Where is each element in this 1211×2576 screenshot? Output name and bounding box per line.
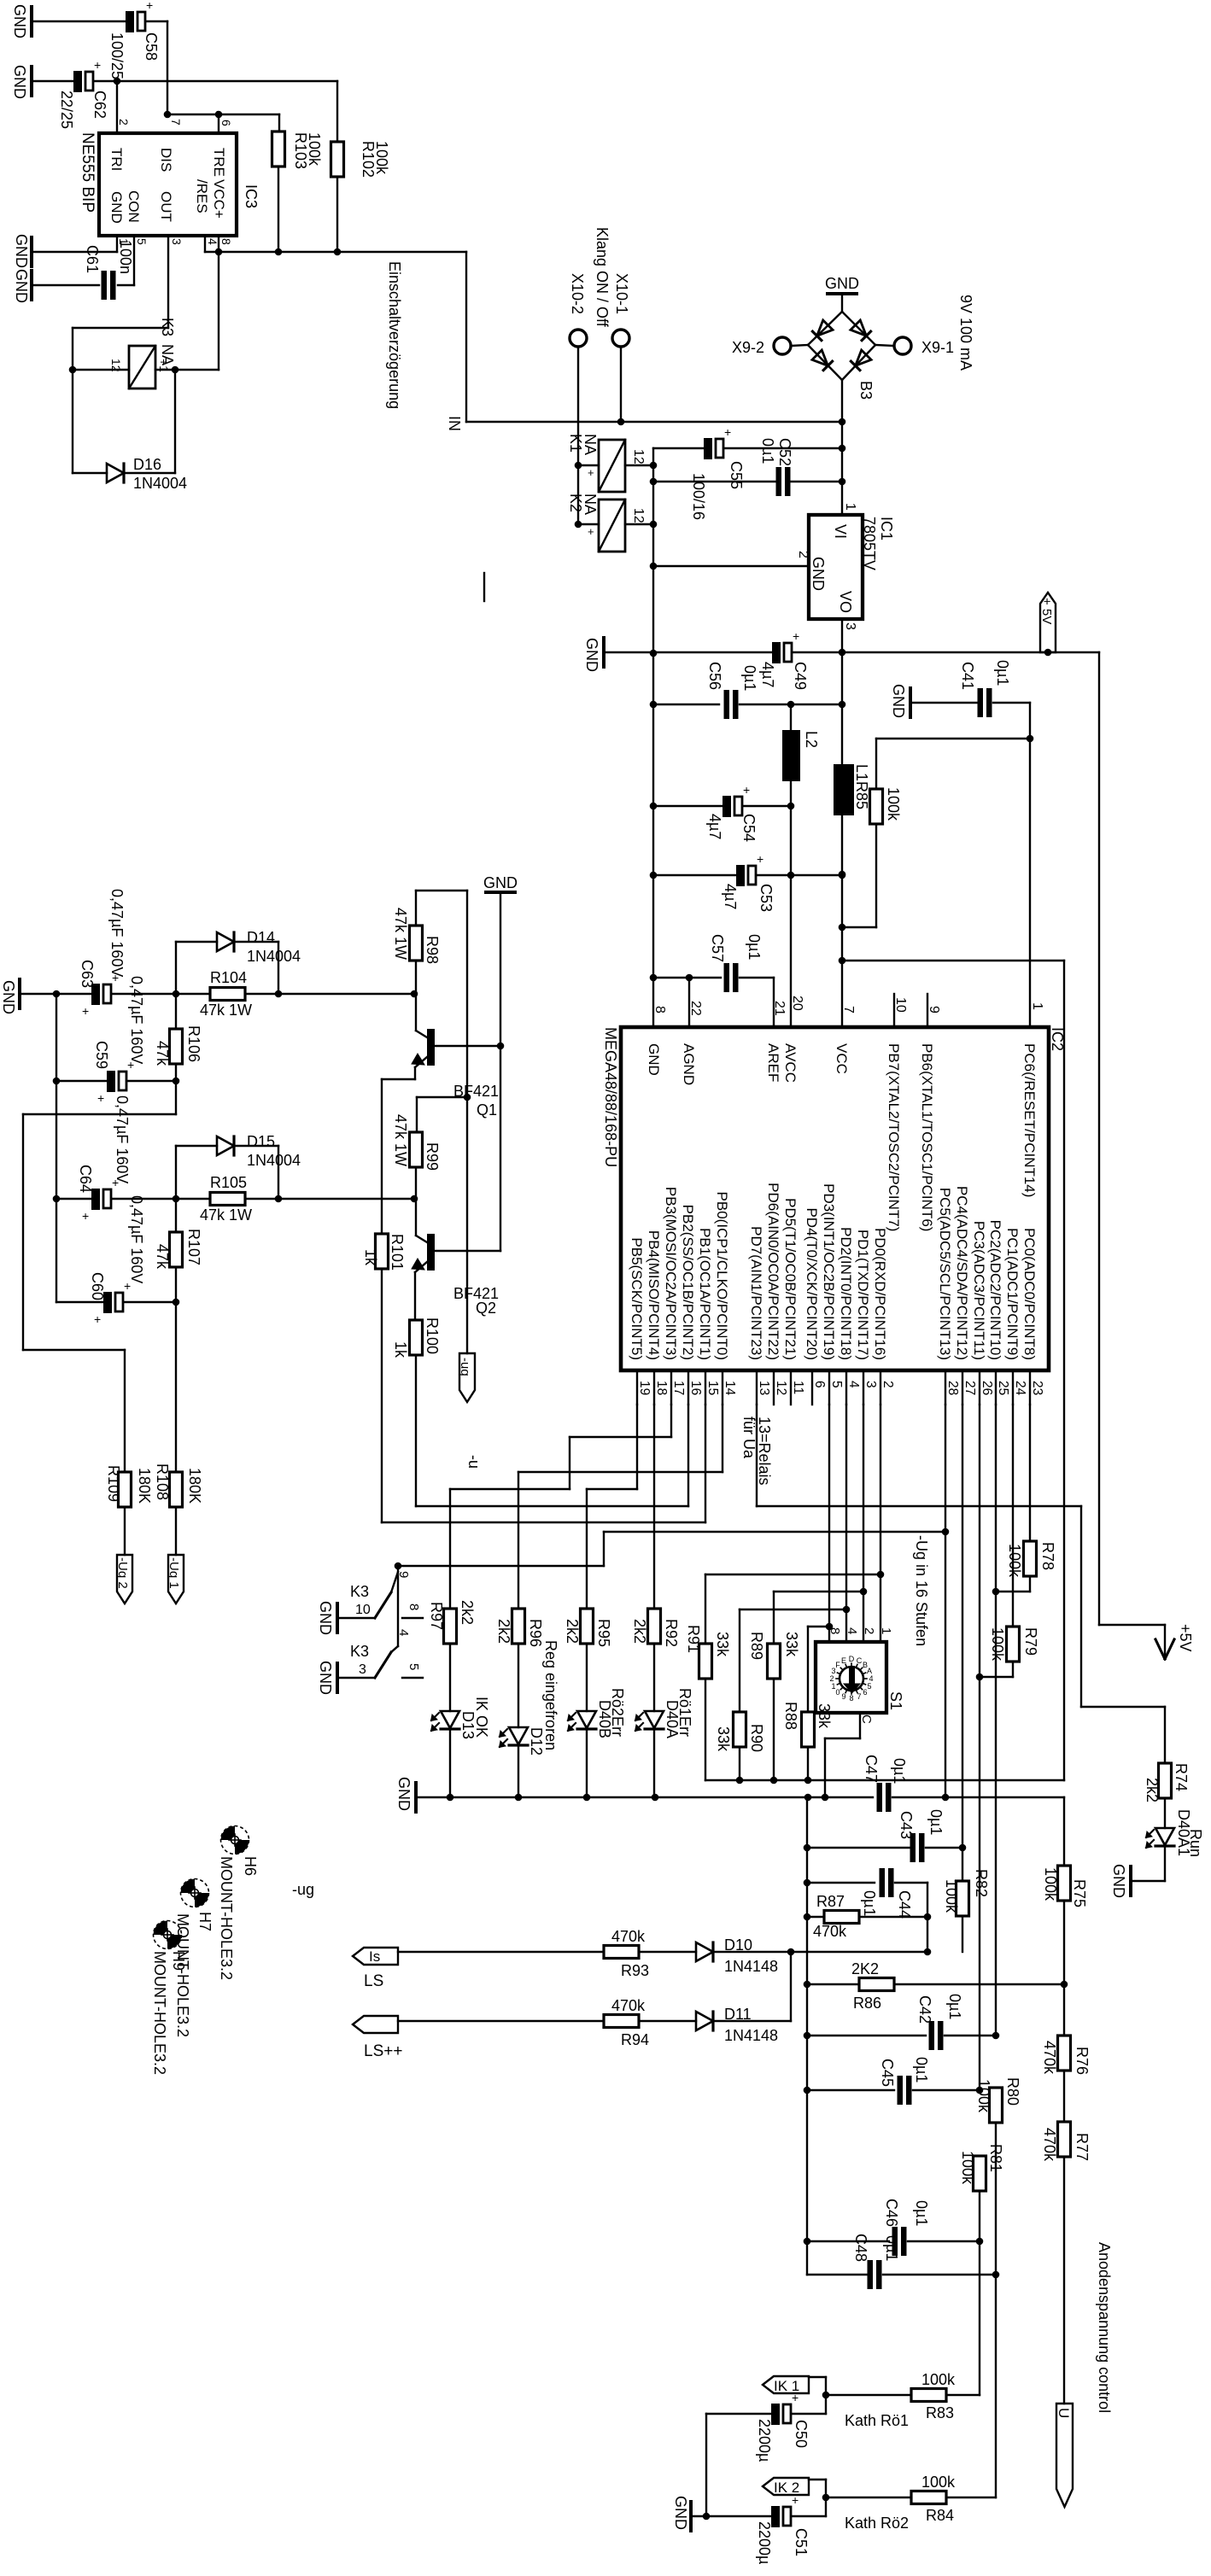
svg-text:C: C — [857, 1656, 863, 1665]
svg-text:PB0(ICP1/CLKO/PCINT0): PB0(ICP1/CLKO/PCINT0) — [714, 1192, 730, 1360]
svg-text:H6: H6 — [242, 1856, 259, 1876]
wire S1-4 to R90 — [740, 1609, 846, 1610]
svg-text:2: 2 — [796, 551, 810, 558]
wire 9V row — [466, 421, 842, 423]
wire — [913, 2089, 980, 2091]
svg-text:C49: C49 — [792, 662, 809, 690]
svg-text:100k: 100k — [1006, 1544, 1023, 1578]
wire R103 top — [278, 114, 280, 131]
svg-text:R92: R92 — [663, 1619, 680, 1647]
svg-text:4µ7: 4µ7 — [759, 662, 776, 687]
wire GND to C49 — [605, 651, 772, 653]
svg-text:C63: C63 — [79, 960, 96, 988]
capacitor C55 — [704, 438, 712, 459]
wire pin18 to R92 — [653, 1405, 655, 1609]
svg-text:13: 13 — [757, 1381, 771, 1395]
svg-text:GND: GND — [0, 980, 17, 1014]
svg-text:R96: R96 — [527, 1619, 544, 1647]
wire — [883, 2274, 996, 2275]
ground GND (Q1/Q2 bases) — [486, 891, 515, 894]
wire pin13 — [756, 1405, 758, 1506]
capacitor C51 — [771, 2506, 780, 2527]
svg-text:PD0(RXD/PCINT16): PD0(RXD/PCINT16) — [872, 1228, 888, 1360]
svg-text:C60: C60 — [89, 1272, 106, 1300]
wire — [842, 926, 876, 928]
svg-text:K2: K2 — [567, 494, 584, 512]
svg-text:100k: 100k — [1042, 1867, 1059, 1901]
svg-text:27: 27 — [962, 1381, 977, 1395]
inductor L1R85 — [834, 764, 854, 815]
wire VCC rail down — [1063, 961, 1065, 1780]
svg-text:PD7(AIN1/PCINT23): PD7(AIN1/PCINT23) — [748, 1226, 764, 1360]
wire pin3 OUT — [167, 236, 169, 328]
svg-text:Q2: Q2 — [476, 1300, 496, 1317]
svg-text:MOUNT-HOLE3.2: MOUNT-HOLE3.2 — [151, 1951, 168, 2075]
svg-text:C41: C41 — [959, 662, 976, 690]
svg-text:100/16: 100/16 — [690, 473, 707, 520]
svg-text:TRE: TRE — [211, 148, 227, 177]
wire — [739, 1747, 740, 1780]
svg-text:PC0(ADC0/PCINT8): PC0(ADC0/PCINT8) — [1021, 1228, 1038, 1360]
resistor R80 — [990, 2088, 1003, 2123]
wire pin28 stub — [945, 1370, 946, 1405]
wire — [176, 941, 217, 943]
wire — [175, 994, 177, 1029]
diode D16 1N4004 — [107, 464, 124, 482]
svg-text:PB2(SS/OC1B/PCINT2): PB2(SS/OC1B/PCINT2) — [680, 1205, 696, 1360]
wire K1 right — [625, 464, 653, 466]
transistor Q2 BF421 — [427, 1234, 435, 1270]
wire base — [435, 1045, 500, 1047]
wire pin3 stub — [863, 1370, 864, 1405]
svg-text:GND: GND — [672, 2496, 689, 2530]
wire C43 row — [807, 1847, 912, 1849]
wire — [859, 1916, 927, 1918]
svg-text:9: 9 — [396, 1571, 411, 1578]
svg-text:D15: D15 — [247, 1133, 275, 1150]
svg-text:1: 1 — [831, 1682, 835, 1691]
svg-text:C46: C46 — [883, 2199, 900, 2227]
wire pull-up rail — [705, 1779, 1064, 1781]
svg-text:5: 5 — [867, 1682, 871, 1691]
svg-text:GND: GND — [1110, 1864, 1127, 1898]
wire K2 right — [625, 523, 653, 525]
bridge diode top-left — [811, 319, 833, 341]
wire — [946, 2497, 996, 2498]
wire pin17 — [670, 1405, 672, 1437]
wire VCC east — [842, 960, 1064, 961]
wire R99 top — [416, 1097, 418, 1132]
svg-text:LS: LS — [364, 1972, 383, 1990]
wire — [1063, 1901, 1065, 1984]
svg-text:0µ1: 0µ1 — [891, 1758, 908, 1784]
svg-text:R80: R80 — [1004, 2077, 1021, 2106]
svg-text:17: 17 — [671, 1381, 686, 1395]
svg-text:GND: GND — [646, 1043, 662, 1076]
svg-text:100n: 100n — [117, 240, 134, 274]
wire — [639, 1951, 696, 1953]
svg-text:8: 8 — [828, 1627, 842, 1634]
svg-text:R81: R81 — [987, 2144, 1004, 2172]
svg-text:MOUNT-HOLE3.2: MOUNT-HOLE3.2 — [174, 1913, 191, 2037]
wire C58 row — [33, 20, 126, 22]
wire IC1 pin2 — [653, 565, 809, 567]
svg-text:2: 2 — [880, 1381, 895, 1388]
svg-text:47k 1W: 47k 1W — [392, 1114, 409, 1166]
svg-text:IN: IN — [446, 416, 463, 431]
wire coil left — [73, 369, 129, 371]
resistor R105 — [210, 1193, 245, 1206]
svg-text:12: 12 — [109, 359, 123, 372]
svg-text:PB7(XTAL2/TOSC2/PCINT7): PB7(XTAL2/TOSC2/PCINT7) — [886, 1043, 902, 1231]
svg-text:AVCC: AVCC — [782, 1043, 799, 1083]
svg-text:/RES: /RES — [194, 179, 210, 213]
wire — [1164, 1847, 1166, 1881]
wire pin6 stub — [811, 1370, 813, 1405]
svg-text:R99: R99 — [424, 1142, 441, 1171]
resistor R92 — [648, 1609, 661, 1644]
svg-text:7: 7 — [857, 1692, 861, 1701]
svg-text:0: 0 — [835, 1688, 840, 1697]
svg-text:47k: 47k — [154, 1041, 171, 1066]
svg-text:Run: Run — [1187, 1829, 1204, 1857]
diode D14 1N4004 — [217, 932, 234, 951]
resistor R94 — [604, 2015, 639, 2028]
svg-text:0µ1: 0µ1 — [759, 438, 776, 464]
wire — [1063, 2071, 1065, 2122]
svg-text:180K: 180K — [186, 1468, 203, 1504]
svg-text:0,47µF 160V: 0,47µF 160V — [114, 1095, 131, 1183]
LED D40A1 Run — [1155, 1828, 1174, 1845]
wire — [807, 1916, 824, 1918]
wire — [175, 1064, 177, 1114]
resistor R97 — [444, 1609, 457, 1644]
wire — [245, 993, 414, 995]
wire C52 row — [653, 481, 778, 482]
wire X10-2 down — [577, 347, 579, 524]
svg-text:470k: 470k — [1041, 2041, 1058, 2075]
resistor R108 — [170, 1472, 183, 1507]
resistor R83 — [911, 2389, 946, 2402]
wire pin5 stub — [402, 1677, 423, 1679]
wire R83 row — [826, 2394, 911, 2396]
resistor R101 — [376, 1234, 389, 1269]
svg-text:B3: B3 — [857, 381, 875, 400]
wire pin26 — [979, 1405, 980, 2090]
svg-text:GND: GND — [810, 557, 827, 591]
svg-text:C48: C48 — [852, 2234, 869, 2262]
ground GND (C61) — [30, 271, 33, 300]
wire C57 row — [653, 977, 721, 978]
wire — [398, 1565, 604, 1567]
svg-text:7: 7 — [169, 119, 183, 126]
wire — [740, 977, 774, 978]
svg-text:R109: R109 — [105, 1465, 122, 1502]
resistor R88 — [802, 1712, 815, 1747]
wire — [705, 2414, 707, 2516]
svg-text:470k: 470k — [611, 1928, 646, 1945]
wire — [127, 1080, 176, 1082]
resistor R74 — [1159, 1763, 1172, 1798]
wire — [218, 252, 219, 370]
wire — [875, 739, 877, 789]
svg-text:+: + — [743, 783, 750, 797]
wire S1-1 to R91 — [705, 1574, 880, 1575]
svg-text:1N4004: 1N4004 — [247, 1152, 301, 1169]
svg-text:5: 5 — [135, 238, 149, 245]
wire — [1048, 651, 1099, 653]
svg-text:1N4004: 1N4004 — [247, 948, 301, 965]
capacitor C57 — [724, 963, 730, 992]
resistor R96 — [512, 1609, 525, 1644]
svg-text:1N4004: 1N4004 — [133, 475, 187, 492]
resistor R106 — [170, 1029, 183, 1064]
svg-text:R106: R106 — [185, 1025, 202, 1062]
resistor R79 — [1007, 1627, 1020, 1662]
resistor R104 — [210, 988, 245, 1001]
wire — [1029, 1576, 1031, 1592]
svg-text:+: + — [94, 58, 101, 72]
svg-text:0µ1: 0µ1 — [861, 1890, 878, 1916]
wire to U flag — [1063, 2157, 1065, 2404]
wire — [518, 1746, 519, 1797]
wire pin13 stub — [756, 1370, 758, 1405]
+5V net arrow — [1155, 1639, 1165, 1659]
capacitor C58 — [126, 11, 134, 32]
wire pin4 to S1 — [845, 1405, 847, 1642]
wire R109 top — [124, 1350, 126, 1472]
svg-text:19: 19 — [637, 1381, 652, 1395]
wire bridge to IC1 — [841, 380, 843, 515]
svg-text:PD3(INT1/OC2B/PCINT19): PD3(INT1/OC2B/PCINT19) — [821, 1183, 837, 1360]
wire pin12 stub — [773, 1370, 775, 1405]
wire pin1 — [33, 251, 117, 253]
svg-text:PD4(T0/XCK/PCINT20): PD4(T0/XCK/PCINT20) — [804, 1207, 820, 1360]
svg-text:H7: H7 — [196, 1912, 214, 1931]
svg-text:13=Relais: 13=Relais — [756, 1417, 773, 1486]
wire — [176, 1145, 217, 1147]
svg-text:K3: K3 — [350, 1643, 369, 1660]
svg-text:D16: D16 — [133, 456, 161, 473]
wire pin28 — [945, 1405, 946, 1797]
net flag IK 2 — [763, 2478, 809, 2495]
svg-text:+: + — [757, 852, 763, 866]
svg-text:R76: R76 — [1074, 2047, 1091, 2075]
capacitor C42 — [929, 2021, 935, 2050]
resistor R91 — [699, 1644, 712, 1679]
wire — [1132, 1880, 1165, 1882]
svg-text:PC4(ADC4/SDA/PCINT12): PC4(ADC4/SDA/PCINT12) — [954, 1186, 970, 1360]
wire GND column — [500, 892, 501, 1251]
wire pin4 stub — [204, 236, 206, 252]
connector X10-2 — [570, 330, 587, 347]
svg-text:100k: 100k — [943, 1879, 960, 1913]
svg-text:R94: R94 — [621, 2031, 649, 2048]
svg-text:PB1(OC1A/PCINT1): PB1(OC1A/PCINT1) — [697, 1228, 713, 1360]
svg-text:TRI: TRI — [108, 148, 125, 171]
wire C55 row — [653, 447, 704, 449]
svg-text:0µ1: 0µ1 — [741, 665, 758, 691]
wire — [112, 1198, 210, 1200]
resistor R87 — [824, 1911, 859, 1924]
wire — [894, 1983, 1064, 1985]
wire — [926, 1847, 962, 1849]
svg-text:4µ7: 4µ7 — [722, 884, 739, 909]
svg-text:NA: NA — [582, 434, 599, 455]
stray stub — [483, 573, 485, 601]
wire — [175, 1267, 177, 1302]
wire R102 top — [336, 81, 338, 142]
svg-text:3: 3 — [359, 1662, 366, 1677]
transistor Q1 BF421 — [427, 1029, 435, 1066]
ground GND (near IC1) — [602, 638, 605, 667]
wire — [875, 824, 877, 927]
ground GND (Kath) — [689, 2502, 693, 2531]
svg-text:2: 2 — [117, 119, 131, 126]
svg-text:MEGA48/88/168-PU: MEGA48/88/168-PU — [602, 1027, 619, 1167]
svg-text:C58: C58 — [143, 32, 160, 61]
resistor R89 — [768, 1644, 781, 1679]
svg-text:9V 100 mA: 9V 100 mA — [957, 295, 974, 371]
ground GND (Run LED) — [1129, 1866, 1132, 1895]
wire — [653, 1730, 655, 1797]
wire — [993, 702, 1030, 704]
wire — [175, 1199, 177, 1232]
ground GND (C58) — [30, 7, 33, 36]
svg-text:MOUNT-HOLE3.2: MOUNT-HOLE3.2 — [218, 1856, 235, 1980]
capacitor C46 — [892, 2227, 898, 2256]
wire X10-1 down — [620, 347, 622, 422]
wire — [518, 1644, 519, 1727]
wire — [705, 1679, 706, 1780]
wire — [1063, 1984, 1065, 2036]
wire to R74 — [1081, 1706, 1165, 1708]
svg-text:U: U — [1056, 2408, 1072, 2418]
resistor R98 — [415, 891, 417, 926]
svg-text:24: 24 — [1013, 1381, 1027, 1396]
wire IN down — [465, 252, 467, 422]
svg-text:PC2(ADC2/PCINT10): PC2(ADC2/PCINT10) — [987, 1220, 1003, 1360]
relay K2 — [599, 499, 625, 552]
svg-text:4: 4 — [396, 1629, 411, 1636]
wire pin16 stub — [687, 1370, 689, 1405]
svg-text:28: 28 — [945, 1381, 960, 1395]
svg-text:+1: +1 — [157, 359, 171, 372]
svg-text:GND: GND — [13, 234, 30, 268]
svg-text:0,47µF 160V: 0,47µF 160V — [128, 976, 145, 1064]
svg-text:PC6(/RESET/PCINT14): PC6(/RESET/PCINT14) — [1021, 1043, 1038, 1197]
wire — [449, 1644, 451, 1711]
net flag LS++ — [353, 2016, 398, 2033]
wire C41 row — [912, 702, 980, 704]
svg-text:R104: R104 — [210, 969, 247, 986]
svg-text:E: E — [841, 1656, 846, 1665]
mount hole H6 — [221, 1826, 249, 1855]
wire — [586, 1644, 588, 1711]
LED D40A — [645, 1711, 664, 1728]
svg-text:CON: CON — [126, 190, 142, 223]
wire — [73, 327, 168, 329]
wire C42 row — [807, 2035, 926, 2036]
svg-text:0µ1: 0µ1 — [913, 2057, 930, 2082]
wire pin9 stub — [927, 994, 928, 1027]
svg-text:6: 6 — [219, 120, 233, 126]
svg-text:1k: 1k — [362, 1249, 379, 1266]
wire — [398, 1951, 604, 1953]
ground GND (C41) — [909, 688, 912, 717]
wire coil right — [155, 369, 219, 371]
svg-text:PB5(SCK/PCINT5): PB5(SCK/PCINT5) — [629, 1237, 645, 1360]
svg-text:K1: K1 — [567, 434, 584, 453]
svg-text:8: 8 — [849, 1694, 853, 1703]
svg-text:PD6(AIN0/OC0A/PCINT22): PD6(AIN0/OC0A/PCINT22) — [765, 1183, 781, 1360]
resistor R95 — [581, 1609, 594, 1644]
svg-text:Anodenspannung control: Anodenspannung control — [1096, 2242, 1113, 2413]
svg-text:Klang ON / Off: Klang ON / Off — [594, 227, 611, 328]
svg-text:C61: C61 — [84, 245, 101, 273]
svg-text:0,47µF 160V: 0,47µF 160V — [128, 1195, 145, 1283]
wire C54 row — [653, 805, 723, 807]
svg-text:5: 5 — [829, 1381, 844, 1388]
wire — [908, 2240, 980, 2242]
capacitor C53 — [736, 865, 745, 886]
svg-text:9: 9 — [841, 1692, 845, 1701]
svg-text:C47: C47 — [863, 1755, 880, 1783]
wire C53 row — [653, 874, 736, 876]
wire — [757, 874, 842, 876]
connector X9-2 — [774, 337, 791, 354]
wire — [1029, 703, 1031, 739]
resistor R77 — [1058, 2122, 1071, 2157]
svg-text:R89: R89 — [748, 1632, 765, 1660]
wire — [23, 1113, 176, 1115]
wire pin23 stub — [1029, 1370, 1031, 1405]
ground GND (bridge) — [828, 292, 857, 295]
svg-text:S1: S1 — [887, 1691, 904, 1710]
svg-text:VCC: VCC — [834, 1043, 850, 1074]
wire R81 south — [979, 2191, 980, 2395]
svg-text:GND: GND — [483, 874, 518, 891]
wire pin23 — [1029, 1405, 1031, 1541]
op-amp U1 : IC3 NE555 box — [99, 133, 237, 236]
svg-text:33k: 33k — [816, 1703, 833, 1729]
svg-text:2k2: 2k2 — [631, 1619, 648, 1644]
svg-text:F: F — [835, 1661, 840, 1669]
svg-text:D: D — [849, 1655, 855, 1663]
wire C61 left — [33, 284, 99, 286]
svg-text:R91: R91 — [685, 1625, 702, 1653]
svg-text:C51: C51 — [793, 2528, 810, 2556]
ground GND (K3 contact 10/9) — [336, 1603, 339, 1633]
svg-text:LS++: LS++ — [364, 2042, 402, 2060]
ground GND (pin1) — [30, 237, 33, 266]
svg-text:C44: C44 — [896, 1890, 913, 1919]
svg-text:L2: L2 — [803, 731, 820, 748]
capacitor C59 — [107, 1071, 115, 1092]
svg-text:VCC+: VCC+ — [211, 179, 227, 219]
svg-text:4: 4 — [845, 1627, 859, 1634]
wire — [653, 1644, 655, 1711]
svg-text:+: + — [588, 466, 594, 479]
wire R102 bottom — [336, 177, 338, 252]
svg-text:R107: R107 — [185, 1229, 202, 1265]
wire to -ug flag — [466, 1097, 468, 1353]
bridge diode bottom-left — [811, 349, 833, 371]
wire — [825, 2377, 827, 2414]
svg-text:100k: 100k — [373, 141, 390, 175]
svg-text:2k2: 2k2 — [495, 1619, 512, 1644]
svg-text:+: + — [82, 1209, 89, 1223]
